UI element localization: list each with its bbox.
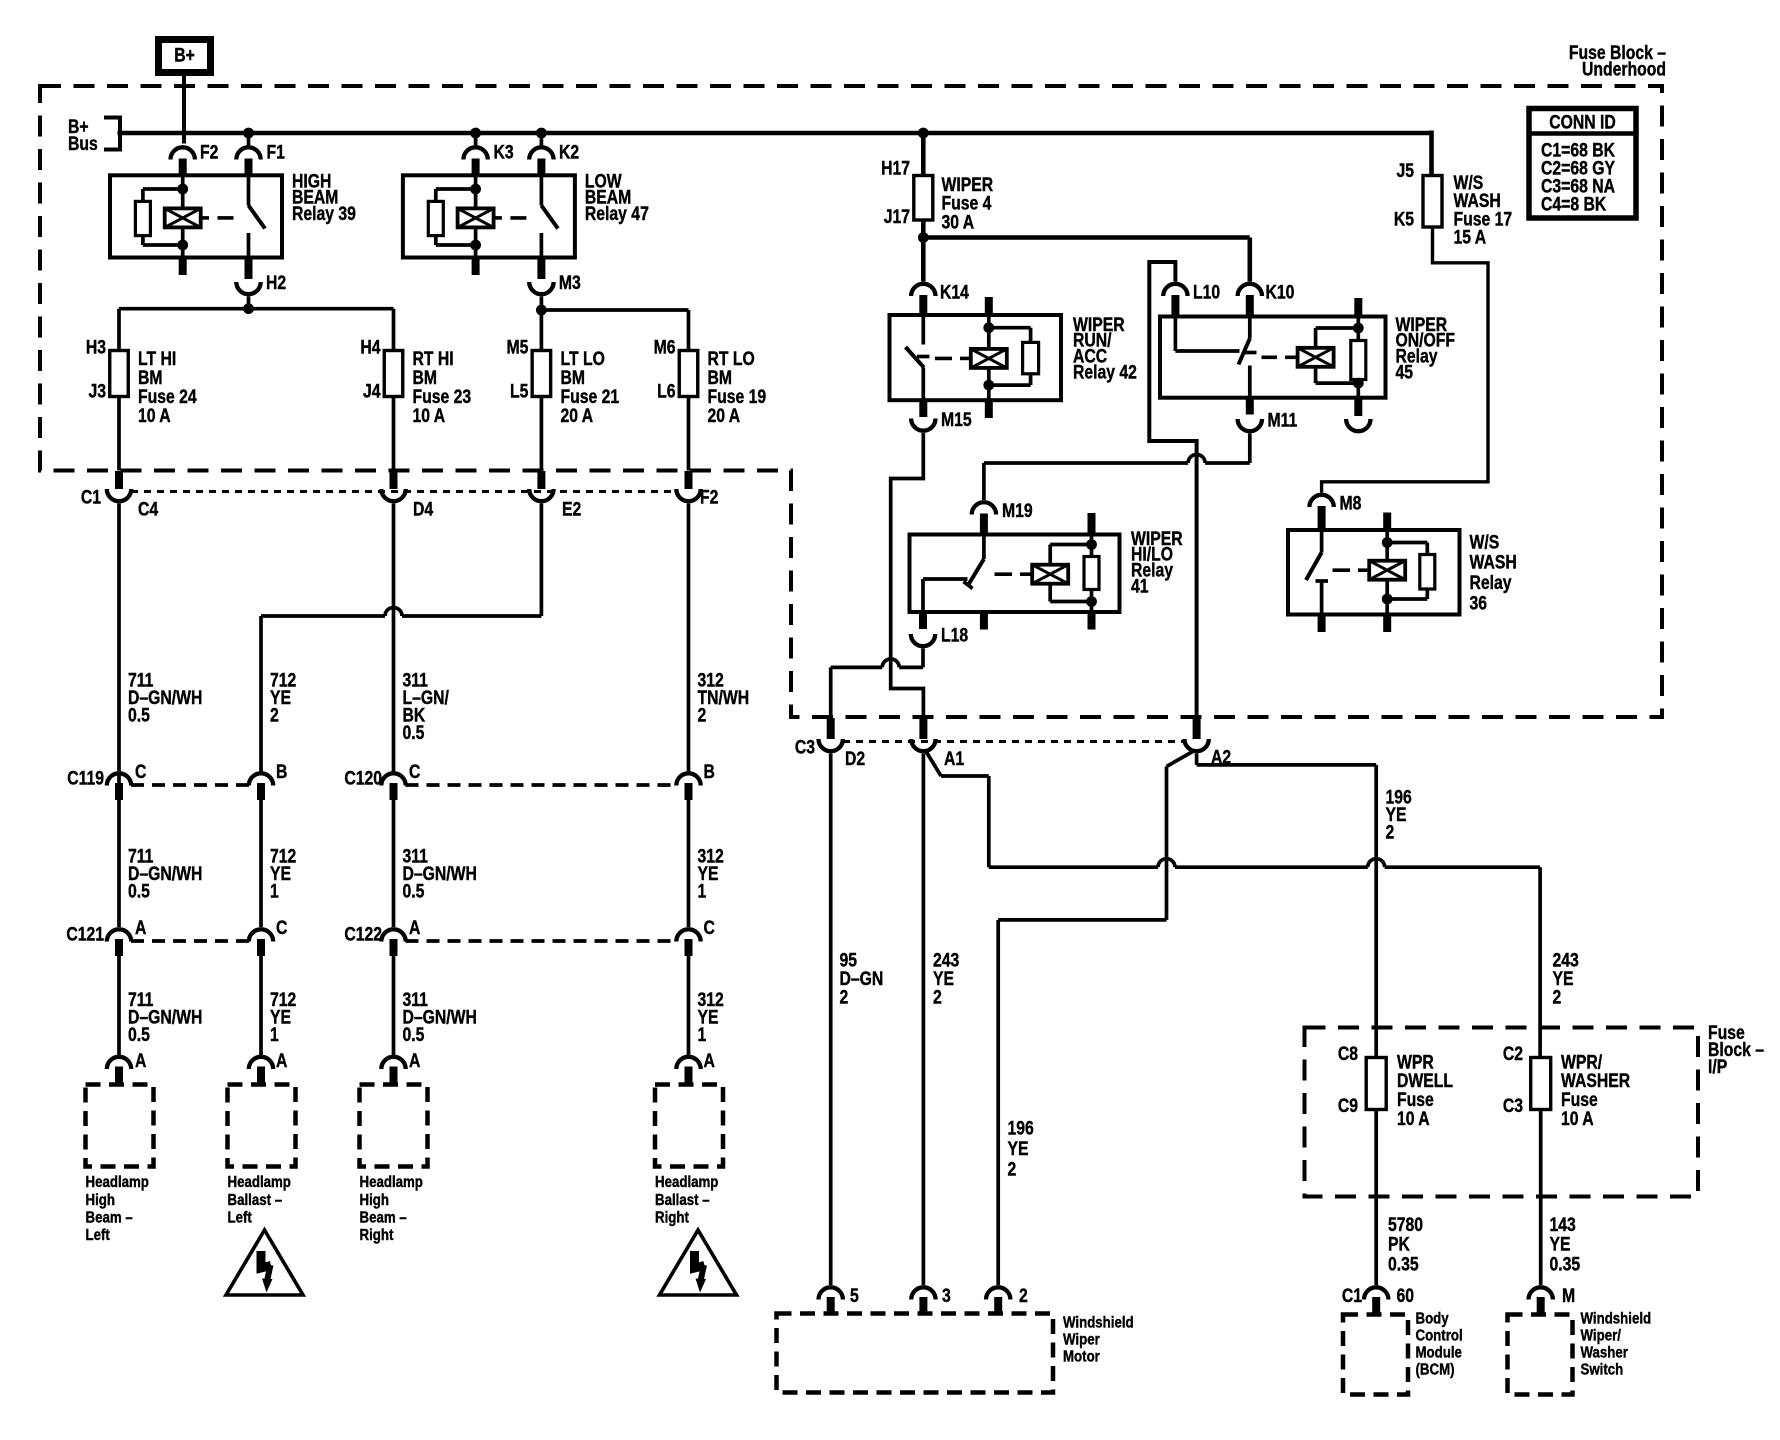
relay 42 WIPER RUN/ACC box <box>890 315 1062 400</box>
svg-text:Washer: Washer <box>1581 1345 1629 1362</box>
connector row dashed link <box>406 783 677 787</box>
svg-text:Headlamp: Headlamp <box>86 1174 149 1191</box>
svg-text:Relay 47: Relay 47 <box>585 202 649 224</box>
svg-text:Ballast –: Ballast – <box>655 1192 710 1209</box>
svg-text:H4: H4 <box>360 336 380 358</box>
connector K14 <box>911 281 969 315</box>
wire 95 D-GN to motor pin 5 <box>829 754 833 1286</box>
svg-text:0.5: 0.5 <box>128 704 150 726</box>
svg-text:Headlamp: Headlamp <box>360 1174 423 1191</box>
fuse block I/P dashed border <box>1305 1028 1699 1197</box>
wire A2 branch to WPR DWELL fuse <box>1197 754 1377 1058</box>
wire 312 mid <box>687 800 691 927</box>
svg-text:B: B <box>276 761 287 783</box>
relay 41 WIPER HI/LO box <box>910 535 1120 613</box>
wire 311 upper <box>392 504 396 772</box>
fuse WPR/WASHER Fuse 10A <box>1503 1043 1631 1130</box>
svg-text:2: 2 <box>933 986 942 1008</box>
svg-text:A1: A1 <box>944 748 964 770</box>
wire bus to J5 <box>1429 131 1434 176</box>
svg-text:Body: Body <box>1416 1311 1450 1328</box>
connector row dashed link <box>131 939 249 943</box>
wire fuse 19 to F2 <box>687 397 691 471</box>
svg-text:Left: Left <box>228 1209 252 1226</box>
connector K2 <box>529 133 579 175</box>
wire 312 upper <box>687 504 691 772</box>
svg-text:1: 1 <box>698 1023 707 1045</box>
svg-text:45: 45 <box>1396 361 1414 383</box>
relay 45 WIPER ON/OFF box <box>1160 317 1386 398</box>
svg-text:K2: K2 <box>559 141 579 163</box>
relay 47 coil circuit <box>428 175 526 275</box>
svg-text:10 A: 10 A <box>1397 1107 1430 1129</box>
svg-text:0.5: 0.5 <box>403 880 425 902</box>
connector M11 <box>1238 398 1298 432</box>
wire 243 YE to motor pin 3 <box>922 754 926 1286</box>
relay 41 centre pin <box>980 612 988 630</box>
node B+ Bus bracket <box>68 115 120 154</box>
svg-text:L18: L18 <box>941 624 968 646</box>
svg-text:H2: H2 <box>266 272 286 294</box>
relay 47 switch <box>541 175 558 257</box>
connector pin C <box>249 917 288 956</box>
fuse Fuse 24 LT HI BM <box>86 336 197 426</box>
wire 311 lower <box>392 956 396 1055</box>
svg-text:Underhood: Underhood <box>1582 58 1666 80</box>
svg-text:2: 2 <box>1019 1285 1028 1307</box>
svg-text:F2: F2 <box>700 486 718 508</box>
svg-text:A: A <box>135 1050 147 1072</box>
svg-text:K3: K3 <box>494 141 514 163</box>
wire M11 to M19 <box>984 434 1250 501</box>
svg-text:C2: C2 <box>1503 1043 1523 1065</box>
svg-text:C4: C4 <box>138 498 158 520</box>
svg-text:Windshield: Windshield <box>1063 1315 1134 1332</box>
connector pin B <box>249 761 288 800</box>
svg-text:1: 1 <box>270 1023 279 1045</box>
connector D2 <box>795 718 865 769</box>
battery feed B+ box <box>159 40 211 73</box>
fuse WIPER Fuse 4 30A <box>881 157 993 233</box>
wire J17 feed <box>918 220 1250 282</box>
connector E2 <box>529 471 581 520</box>
relay 36 W/S WASH box <box>1288 530 1460 615</box>
svg-text:0.5: 0.5 <box>128 880 150 902</box>
svg-text:M3: M3 <box>559 272 581 294</box>
wire 712 mid <box>259 800 263 927</box>
wire fuse 21 to E2 <box>540 397 544 471</box>
svg-text:H3: H3 <box>86 336 106 358</box>
relay 42 coil circuit <box>935 297 1039 418</box>
svg-text:Relay 39: Relay 39 <box>292 202 356 224</box>
wire A1 branch to WPR WASHER fuse <box>926 751 1541 1058</box>
CONN ID table <box>1529 109 1636 219</box>
svg-text:36: 36 <box>1470 592 1488 614</box>
svg-text:Beam –: Beam – <box>360 1209 407 1226</box>
svg-text:YE: YE <box>1550 1233 1571 1255</box>
wire H2 branch <box>119 297 394 351</box>
svg-text:Wiper: Wiper <box>1063 1332 1100 1349</box>
warning triangle right <box>660 1230 737 1295</box>
svg-text:M5: M5 <box>507 336 529 358</box>
svg-text:Control: Control <box>1416 1328 1463 1345</box>
fuse WPR DWELL Fuse 10A <box>1338 1043 1453 1130</box>
wire A2 branch to motor pin 2 <box>998 751 1194 1286</box>
svg-text:C119: C119 <box>67 767 104 789</box>
fuse Fuse 19 RT LO BM <box>654 336 767 426</box>
svg-text:B: B <box>704 761 715 783</box>
connector pin A <box>381 1050 420 1087</box>
svg-text:Module: Module <box>1416 1345 1462 1362</box>
svg-text:PK: PK <box>1388 1233 1410 1255</box>
svg-text:WASH: WASH <box>1470 551 1517 573</box>
svg-text:C122: C122 <box>344 923 382 945</box>
svg-text:10 A: 10 A <box>413 404 446 426</box>
label Fuse Block - Underhood <box>1569 42 1666 80</box>
connector pin A <box>249 1050 288 1087</box>
connector D4 <box>381 471 433 520</box>
svg-text:M11: M11 <box>1268 409 1298 431</box>
wire B+ bus <box>118 131 1432 136</box>
connector pin A <box>107 1050 147 1087</box>
connector pin A <box>676 1050 715 1087</box>
connector F2 <box>171 141 219 175</box>
svg-text:10 A: 10 A <box>138 404 171 426</box>
connector H2 <box>236 258 286 295</box>
wire fuse 24 to C4 <box>117 397 121 471</box>
wire W/S WASH fuse to M8 <box>1322 227 1488 493</box>
connector K3 <box>463 133 514 175</box>
relay 41 coil circuit <box>995 513 1100 630</box>
svg-text:Switch: Switch <box>1581 1362 1624 1379</box>
connector M pin <box>1529 1285 1576 1315</box>
svg-text:2: 2 <box>840 986 849 1008</box>
svg-text:Headlamp: Headlamp <box>655 1174 718 1191</box>
svg-text:L6: L6 <box>657 380 676 402</box>
wire 712 upper jog <box>261 504 541 772</box>
svg-text:10 A: 10 A <box>1561 1107 1594 1129</box>
connector pin A <box>381 917 420 956</box>
svg-text:C4=8 BK: C4=8 BK <box>1541 193 1607 215</box>
svg-text:Motor: Motor <box>1063 1349 1100 1366</box>
fuse block underhood dashed border <box>40 86 1662 717</box>
relay 47 box <box>403 175 575 257</box>
connector M19 <box>972 500 1033 535</box>
wire 311 mid <box>392 800 396 927</box>
svg-text:YE: YE <box>1008 1137 1029 1159</box>
wire M15 to A1 <box>891 433 924 718</box>
svg-text:20 A: 20 A <box>561 404 594 426</box>
relay 45 switch <box>1175 317 1256 398</box>
svg-text:M6: M6 <box>654 336 676 358</box>
svg-text:Bus: Bus <box>68 132 98 154</box>
connector M8 <box>1309 492 1361 530</box>
wire B+ to bus <box>182 76 186 144</box>
svg-text:C121: C121 <box>66 923 104 945</box>
connector pin C <box>381 761 420 800</box>
svg-text:J3: J3 <box>88 380 106 402</box>
svg-text:C: C <box>135 761 147 783</box>
node H17 junction <box>918 128 929 139</box>
connector C1 pin 60 <box>1342 1285 1414 1315</box>
connector M3 <box>529 258 581 295</box>
svg-text:Left: Left <box>86 1227 110 1244</box>
svg-text:C120: C120 <box>344 767 382 789</box>
connector A1 <box>911 718 964 769</box>
svg-text:C: C <box>704 917 716 939</box>
relay 39 coil circuit <box>135 175 233 275</box>
svg-text:Right: Right <box>655 1209 689 1226</box>
svg-text:0.5: 0.5 <box>403 721 425 743</box>
svg-text:C3: C3 <box>1503 1095 1523 1117</box>
component headlamp high beam left box <box>86 1085 154 1167</box>
component headlamp high beam right box <box>360 1085 428 1167</box>
connector pin C <box>107 761 147 800</box>
svg-text:Windshield: Windshield <box>1581 1311 1652 1328</box>
svg-text:Relay 42: Relay 42 <box>1073 361 1137 383</box>
connector motor pin 5 <box>819 1285 860 1314</box>
svg-text:Headlamp: Headlamp <box>228 1174 291 1191</box>
connector L10 <box>1163 281 1220 316</box>
connector motor pin 2 <box>986 1285 1028 1314</box>
svg-text:Ballast –: Ballast – <box>228 1192 283 1209</box>
svg-text:H17: H17 <box>881 157 910 179</box>
wire L18 to D2 <box>831 649 923 719</box>
node K2 junction <box>536 128 547 139</box>
node K3 junction <box>470 128 481 139</box>
component windshield wiper motor box <box>777 1314 1054 1393</box>
svg-text:30 A: 30 A <box>942 211 975 233</box>
wire 711 upper <box>117 504 121 772</box>
connector A2 <box>1184 718 1231 768</box>
connector F2 row <box>676 471 718 508</box>
connector motor pin 3 <box>911 1285 951 1314</box>
svg-text:C8: C8 <box>1338 1043 1358 1065</box>
svg-text:C3: C3 <box>795 736 815 758</box>
connector row C1 dotted line <box>131 490 677 493</box>
svg-text:C1: C1 <box>1342 1285 1362 1307</box>
connector C4 <box>81 471 159 520</box>
svg-text:F2: F2 <box>200 141 218 163</box>
wire 5780 PK to BCM <box>1374 1110 1378 1286</box>
svg-text:CONN ID: CONN ID <box>1549 111 1615 133</box>
svg-text:B+: B+ <box>174 44 195 66</box>
connector row dashed link <box>406 939 677 943</box>
svg-text:1: 1 <box>270 880 279 902</box>
svg-text:W/S: W/S <box>1470 531 1500 553</box>
wire wiper feed <box>921 133 926 176</box>
relay 39 box <box>110 175 282 257</box>
svg-text:High: High <box>86 1192 115 1209</box>
wire 143 YE to switch <box>1539 1110 1543 1286</box>
connector row dashed link <box>131 783 249 787</box>
connector pin B <box>676 761 715 800</box>
wire 712 lower <box>259 956 263 1055</box>
fuse Fuse 21 LT LO BM <box>507 336 620 426</box>
warning triangle left <box>226 1230 303 1295</box>
wire 711 mid <box>117 772 121 801</box>
svg-text:High: High <box>360 1192 389 1209</box>
svg-text:M: M <box>1562 1285 1575 1307</box>
svg-text:0.5: 0.5 <box>403 1023 425 1045</box>
relay 39 switch <box>249 175 266 257</box>
svg-text:A: A <box>135 917 147 939</box>
svg-text:C: C <box>409 761 421 783</box>
svg-text:C1: C1 <box>81 486 101 508</box>
svg-text:2: 2 <box>698 704 707 726</box>
svg-text:M15: M15 <box>941 409 972 431</box>
svg-text:Relay: Relay <box>1470 572 1512 594</box>
wire fuse 23 to D4 <box>392 397 396 471</box>
svg-text:0.35: 0.35 <box>1388 1253 1419 1275</box>
component windshield wiper washer switch box <box>1508 1315 1573 1395</box>
svg-text:A: A <box>409 917 421 939</box>
svg-text:J4: J4 <box>363 380 381 402</box>
connector F1 <box>236 133 285 175</box>
connector row C3 dotted line <box>843 740 1184 743</box>
wire M3 branch <box>536 297 689 351</box>
svg-text:C9: C9 <box>1338 1095 1358 1117</box>
svg-text:2: 2 <box>1008 1158 1017 1180</box>
connector relay 45 spare <box>1346 415 1370 432</box>
svg-text:196: 196 <box>1008 1117 1035 1139</box>
svg-text:Beam –: Beam – <box>86 1209 133 1226</box>
relay 36 switch <box>1306 530 1328 632</box>
svg-text:60: 60 <box>1397 1285 1415 1307</box>
component headlamp ballast right box <box>655 1085 723 1167</box>
node F1 junction <box>243 128 254 139</box>
svg-text:143: 143 <box>1550 1213 1577 1235</box>
connector M15 <box>911 400 972 430</box>
svg-text:0.5: 0.5 <box>128 1023 150 1045</box>
svg-text:C: C <box>276 917 288 939</box>
wire 312 lower <box>687 956 691 1055</box>
svg-text:F1: F1 <box>267 141 286 163</box>
relay 45 coil circuit <box>1262 298 1366 415</box>
svg-text:K10: K10 <box>1266 281 1295 303</box>
svg-text:0.35: 0.35 <box>1550 1253 1581 1275</box>
svg-text:J17: J17 <box>884 206 910 228</box>
svg-text:20 A: 20 A <box>708 404 741 426</box>
svg-text:15 A: 15 A <box>1454 226 1487 248</box>
component body control module box <box>1343 1315 1408 1395</box>
svg-text:2: 2 <box>1386 821 1395 843</box>
svg-text:3: 3 <box>942 1285 951 1307</box>
svg-text:1: 1 <box>698 880 707 902</box>
svg-text:D2: D2 <box>845 748 865 770</box>
svg-text:2: 2 <box>1553 986 1562 1008</box>
svg-text:Right: Right <box>360 1227 394 1244</box>
svg-text:41: 41 <box>1131 575 1149 597</box>
svg-text:Wiper/: Wiper/ <box>1581 1328 1621 1345</box>
relay 41 switch <box>923 535 984 613</box>
svg-text:K14: K14 <box>940 281 969 303</box>
svg-text:A: A <box>704 1050 716 1072</box>
svg-text:J5: J5 <box>1396 160 1414 182</box>
component headlamp ballast left box <box>228 1085 296 1167</box>
svg-text:L10: L10 <box>1193 281 1220 303</box>
svg-text:A: A <box>409 1050 421 1072</box>
wire 711 lower <box>117 956 121 1055</box>
svg-text:A: A <box>276 1050 288 1072</box>
connector K10 <box>1238 281 1295 316</box>
relay 36 coil circuit <box>1333 513 1435 633</box>
relay 42 switch <box>906 315 930 400</box>
svg-text:D4: D4 <box>413 498 433 520</box>
svg-text:M19: M19 <box>1002 500 1033 522</box>
connector pin C <box>676 917 715 956</box>
fuse W/S WASH Fuse 17 15A <box>1394 160 1512 248</box>
connector pin A <box>107 917 147 956</box>
svg-text:M8: M8 <box>1340 492 1362 514</box>
svg-text:5780: 5780 <box>1388 1213 1423 1235</box>
connector L18 <box>911 612 969 646</box>
svg-text:(BCM): (BCM) <box>1416 1362 1455 1379</box>
svg-text:2: 2 <box>270 704 279 726</box>
wire L10 loop <box>1149 262 1196 718</box>
fuse Fuse 23 RT HI BM <box>360 336 471 426</box>
svg-text:I/P: I/P <box>1708 1055 1728 1077</box>
svg-text:L5: L5 <box>510 380 529 402</box>
svg-text:K5: K5 <box>1394 208 1414 230</box>
svg-text:E2: E2 <box>562 498 581 520</box>
svg-text:5: 5 <box>850 1285 859 1307</box>
